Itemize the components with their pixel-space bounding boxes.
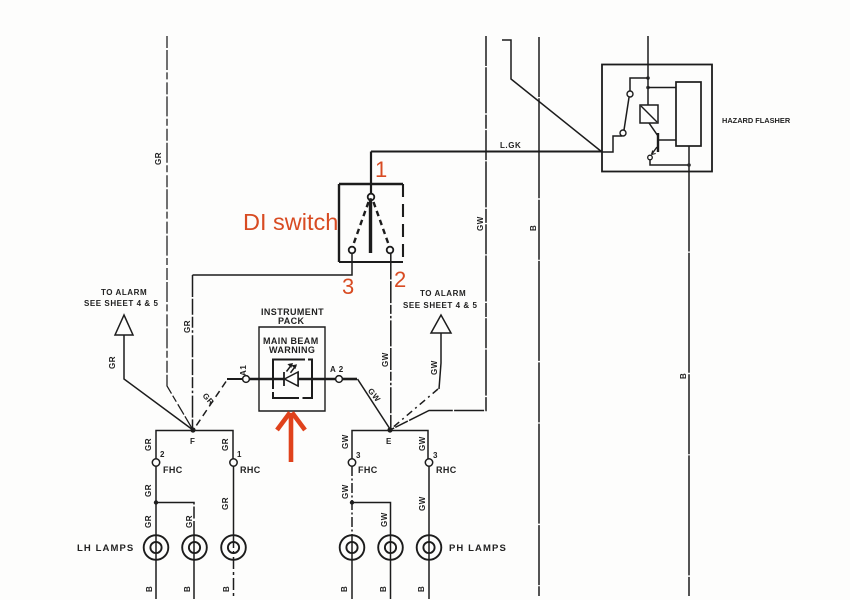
svg-text:B: B	[379, 586, 388, 592]
node hazard top	[646, 76, 650, 80]
transistor Q1 base bar	[657, 133, 659, 152]
red arrow annotation	[277, 413, 305, 463]
svg-text:E: E	[386, 437, 392, 446]
wire RHC right down	[428, 466, 430, 536]
wire A1 to F (dashed)	[227, 378, 242, 380]
svg-text:L.GK: L.GK	[500, 141, 521, 150]
wire branch to lamp middle	[352, 503, 391, 537]
svg-text:RHC: RHC	[240, 465, 261, 475]
wire GW feed vertical	[390, 36, 486, 430]
DI switch dashed arm left	[353, 202, 369, 246]
wire RH bracket	[352, 431, 428, 459]
wire terminal 2 to E	[390, 254, 392, 431]
wire B bus left	[538, 37, 540, 596]
hazard switch arm	[624, 98, 629, 131]
transistor emitter	[652, 147, 658, 155]
svg-text:RHC: RHC	[436, 465, 457, 475]
svg-text:GW: GW	[341, 484, 350, 499]
wire lamp RH1 to B	[351, 536, 353, 599]
svg-text:GR: GR	[154, 152, 163, 165]
svg-text:HAZARD FLASHER: HAZARD FLASHER	[722, 116, 791, 125]
svg-text:GW: GW	[476, 216, 485, 231]
svg-text:GR: GR	[144, 515, 153, 528]
svg-text:B: B	[679, 373, 688, 379]
svg-text:GW: GW	[418, 436, 427, 451]
svg-text:GW: GW	[418, 496, 427, 511]
svg-text:SEE SHEET 4 & 5: SEE SHEET 4 & 5	[84, 299, 159, 308]
flasher unit block	[676, 82, 701, 146]
lamp LH3	[221, 535, 246, 560]
wire GR feed vertical	[167, 36, 193, 430]
instrument pack box	[259, 327, 325, 411]
transistor collector	[658, 139, 676, 141]
svg-text:FHC: FHC	[163, 465, 183, 475]
svg-text:GW: GW	[380, 512, 389, 527]
wire flasher unit to B bus	[688, 146, 690, 172]
node E	[387, 427, 392, 432]
DI switch lever	[369, 202, 372, 254]
wire lower contact to L.GK entry	[602, 136, 622, 152]
lamp RH3	[417, 535, 442, 560]
wire to switch contact	[630, 78, 648, 91]
svg-text:B: B	[183, 586, 192, 592]
warning lamp box	[273, 360, 312, 399]
svg-text:2: 2	[394, 267, 406, 292]
DI switch terminal 2 pin	[387, 247, 394, 254]
connector A1	[243, 376, 250, 383]
resistor square	[640, 105, 658, 123]
wire A2 to E (dashed)	[358, 379, 391, 429]
svg-text:GW: GW	[430, 360, 439, 375]
node hazard bottom	[687, 163, 691, 167]
lamp LH1	[144, 535, 169, 560]
lamp RH2	[378, 535, 403, 560]
wire branch to lamp 2	[156, 503, 194, 537]
wire to flasher unit	[648, 87, 676, 89]
svg-text:TO ALARM: TO ALARM	[101, 288, 147, 297]
wire through lamp (left)	[249, 378, 284, 381]
svg-text:3: 3	[342, 274, 354, 299]
svg-text:A 2: A 2	[330, 365, 344, 374]
svg-text:B: B	[222, 586, 231, 592]
wire DI terminal 1	[370, 152, 372, 194]
connector A2	[336, 376, 343, 383]
connector FHC right	[348, 459, 355, 466]
svg-text:GR: GR	[144, 484, 153, 497]
svg-text:3: 3	[433, 451, 438, 460]
wire B bus right	[688, 172, 690, 597]
hazard switch lower contact	[620, 130, 626, 136]
wire square to transistor base	[649, 123, 658, 136]
DI switch box	[339, 183, 403, 185]
svg-text:PH LAMPS: PH LAMPS	[449, 543, 507, 554]
svg-text:3: 3	[356, 451, 361, 460]
wire lamp RH3 to B	[428, 536, 430, 599]
wire alarm right to E	[439, 333, 441, 389]
connector FHC left	[152, 459, 159, 466]
alarm connector triangle right	[431, 315, 451, 333]
wire lamp RH2 to B	[390, 536, 392, 599]
wire hazard feed	[647, 36, 649, 78]
DI switch terminal 1 pin	[368, 194, 375, 201]
wire LH bracket	[156, 431, 233, 459]
connector RHC left	[230, 459, 237, 466]
lamp LH2	[182, 535, 207, 560]
svg-text:FHC: FHC	[358, 465, 378, 475]
svg-text:GR: GR	[108, 356, 117, 369]
wire through lamp (right)	[298, 378, 335, 381]
svg-text:LH LAMPS: LH LAMPS	[77, 543, 134, 554]
wire FHC left down	[155, 466, 157, 536]
svg-text:B: B	[417, 586, 426, 592]
svg-text:1: 1	[375, 157, 387, 182]
svg-text:GR: GR	[221, 497, 230, 510]
wire A2 stub	[343, 378, 358, 381]
node hazard mid	[646, 86, 650, 90]
wire lamp LH1 to B	[155, 536, 157, 599]
svg-text:GW: GW	[341, 434, 350, 449]
svg-text:B: B	[145, 586, 154, 592]
connector RHC right	[425, 459, 432, 466]
svg-text:DI switch: DI switch	[243, 209, 338, 235]
wire FHC right down	[351, 466, 353, 536]
svg-text:F: F	[190, 437, 195, 446]
node branch right	[350, 500, 354, 504]
svg-text:1: 1	[237, 450, 242, 459]
wire lamp LH3 to B	[233, 536, 235, 599]
svg-text:PACK: PACK	[278, 316, 305, 326]
lamp emission arrows	[287, 364, 297, 373]
emitter node circle	[648, 155, 653, 160]
wire lamp LH2 to B	[193, 536, 195, 599]
wire emitter to ground bus	[650, 160, 689, 165]
svg-text:A1: A1	[239, 365, 248, 376]
lamp RH1	[340, 535, 365, 560]
wire L.GK feed from top	[502, 40, 602, 152]
svg-text:GW: GW	[381, 352, 390, 367]
wire RHC left down	[233, 466, 235, 536]
DI switch dashed arm right	[374, 202, 390, 246]
wire alarm left to F	[124, 335, 193, 430]
svg-text:GR: GR	[183, 320, 192, 333]
svg-text:2: 2	[160, 450, 165, 459]
svg-text:B: B	[529, 225, 538, 231]
svg-text:GR: GR	[221, 438, 230, 451]
svg-text:GR: GR	[185, 515, 194, 528]
wire L.GK horizontal	[371, 151, 602, 153]
warning lamp LED symbol	[297, 372, 299, 387]
wire terminal 3 to F	[193, 254, 353, 276]
svg-text:SEE SHEET 4 & 5: SEE SHEET 4 & 5	[403, 301, 478, 310]
svg-text:TO ALARM: TO ALARM	[420, 289, 466, 298]
wire junction down	[647, 78, 649, 105]
node branch left	[154, 500, 158, 504]
alarm connector triangle left	[115, 315, 133, 335]
svg-text:GR: GR	[144, 438, 153, 451]
DI switch lever joint	[369, 198, 373, 202]
DI switch terminal 3 pin	[349, 247, 356, 254]
hazard flasher box	[602, 65, 712, 172]
svg-text:B: B	[340, 586, 349, 592]
hazard switch top contact	[627, 91, 633, 97]
svg-text:WARNING: WARNING	[269, 345, 315, 355]
node F	[190, 427, 195, 432]
